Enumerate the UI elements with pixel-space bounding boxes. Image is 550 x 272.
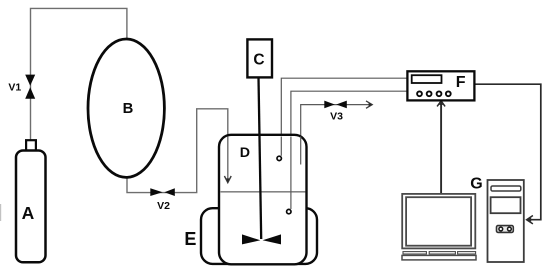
- svg-text:D: D: [240, 145, 250, 161]
- svg-text:B: B: [123, 101, 134, 117]
- svg-text:C: C: [253, 51, 264, 68]
- svg-text:A: A: [22, 203, 35, 223]
- svg-text:V1: V1: [8, 82, 21, 94]
- svg-text:E: E: [184, 229, 196, 249]
- svg-text:G: G: [470, 175, 482, 192]
- svg-text:V2: V2: [157, 200, 170, 212]
- svg-text:F: F: [456, 74, 466, 91]
- svg-text:V3: V3: [330, 111, 343, 123]
